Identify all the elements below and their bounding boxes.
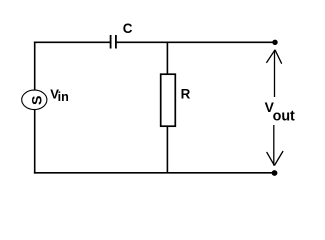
wire: left vertical lower segment (source to bottom rail) — [34, 110, 36, 174]
wire: bottom rail — [34, 172, 275, 174]
wire: top rail left segment (node A to capacitor) — [34, 41, 110, 43]
wire: top rail right segment (capacitor to output node) — [117, 41, 275, 43]
wire: resistor bottom lead (R to bottom rail) — [166, 126, 168, 173]
wire: resistor top lead (top rail to R) — [166, 42, 168, 74]
node: output terminal bottom (dot) — [272, 170, 278, 176]
svg-text:C: C — [123, 21, 133, 36]
resistor R (box) — [161, 74, 176, 126]
arrow down (V_out polarity, lower) — [267, 125, 284, 166]
svg-text:in: in — [58, 90, 69, 104]
source V_in (AC source circle) — [22, 90, 47, 110]
svg-text:out: out — [273, 109, 295, 125]
capacitor C — [111, 35, 116, 49]
wire: left vertical upper segment (top rail to source) — [34, 42, 36, 91]
node: output terminal top (dot) — [272, 40, 277, 45]
svg-text:S: S — [29, 96, 45, 105]
svg-text:R: R — [181, 86, 191, 101]
arrow up (V_out polarity, upper) — [266, 50, 281, 97]
